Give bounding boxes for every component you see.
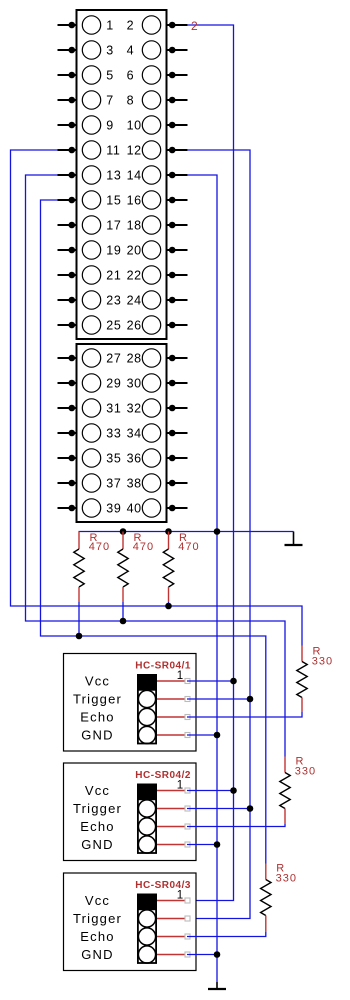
J1B pin 36 (stub, dot, socket, number): [127, 449, 188, 467]
HC-SR04/2 Vcc terminal pad: [185, 788, 190, 793]
svg-text:Echo: Echo: [80, 929, 114, 944]
J1B pin 28 (stub, dot, socket, number): [127, 349, 188, 367]
HC-SR04/1 pin 4 circle: [138, 726, 155, 743]
svg-text:Trigger: Trigger: [73, 801, 122, 816]
svg-text:GND: GND: [81, 728, 114, 743]
HC-SR04/3 Echo terminal pad: [185, 934, 190, 939]
wire HC-SR04/2 Trigger to trigger rail: [187, 808, 250, 810]
svg-text:Vcc: Vcc: [85, 893, 110, 908]
HC-SR04/3 pin header outline: [138, 909, 156, 963]
wire HC-SR04/1 Vcc to 5V rail: [187, 680, 234, 682]
junction R6 / net: [165, 603, 172, 610]
svg-text:28: 28: [127, 351, 142, 365]
HC-SR04/2 Echo lead: [157, 826, 185, 828]
HC-SR04/1 pin 3 circle: [138, 708, 155, 725]
J1A pin 3 (stub, dot, socket, number): [58, 41, 114, 59]
HC-SR04/3 pin 3 circle: [138, 928, 155, 945]
junction HC-SR04/3 GND / GND rail: [214, 951, 221, 958]
J1A pin 13 (stub, dot, socket, number): [58, 166, 122, 184]
svg-text:40: 40: [127, 501, 142, 515]
junction HC-SR04/2 Trigger / trigger rail: [247, 805, 254, 812]
HC-SR04/1 GND terminal pad: [185, 733, 190, 738]
resistor R4 470 ohm (pull-down): [74, 532, 84, 603]
svg-text:37: 37: [106, 476, 121, 490]
svg-text:36: 36: [127, 451, 142, 465]
HC-SR04/3 GND terminal pad: [185, 952, 190, 957]
HC-SR04/1 pin 1 pad (filled square): [137, 674, 157, 689]
svg-text:Vcc: Vcc: [85, 783, 110, 798]
HC-SR04/1 pin 2 circle: [138, 690, 155, 707]
svg-text:16: 16: [127, 193, 142, 207]
junction HC-SR04/1 Vcc / 5V rail: [230, 678, 237, 685]
wire HC-SR04/2 Vcc to 5V rail: [187, 790, 234, 792]
junction GND bus / GND rail: [214, 528, 221, 535]
svg-text:3: 3: [106, 43, 114, 57]
J1A pin 19 (stub, dot, socket, number): [58, 241, 122, 259]
wire HC-SR04/1 GND to GND rail: [187, 734, 217, 736]
HC-SR04/1 pin header outline: [138, 690, 156, 744]
svg-text:Trigger: Trigger: [73, 911, 122, 926]
wire net GPIO22: pin 15 left, down x=40, across y=636, down x=266 to R330/3: [41, 200, 266, 864]
junction GND bus / R470-2: [120, 528, 127, 535]
wire net 2 (5V): pin 2 right, down x=233.5, to Vcc pins of modules: [187, 25, 234, 901]
resistor R6 470 ohm (pull-down): [163, 532, 173, 603]
J1B pin 31 (stub, dot, socket, number): [58, 399, 122, 417]
HC-SR04/3 Trigger terminal pad: [185, 916, 190, 921]
svg-text:2: 2: [127, 18, 135, 32]
svg-text:34: 34: [127, 426, 142, 440]
svg-text:29: 29: [106, 376, 121, 390]
svg-text:470: 470: [178, 541, 199, 553]
svg-text:9: 9: [106, 118, 114, 132]
svg-text:4: 4: [127, 43, 135, 57]
J1A pin 16 (stub, dot, socket, number): [127, 191, 188, 209]
svg-text:15: 15: [106, 193, 121, 207]
J1A pin 23 (stub, dot, socket, number): [58, 291, 122, 309]
J1A pin 25 (stub, dot, socket, number): [58, 316, 122, 334]
svg-text:7: 7: [106, 93, 114, 107]
HC-SR04/2 GND terminal pad: [185, 842, 190, 847]
J1B pin 40 (stub, dot, socket, number): [127, 499, 188, 517]
ground symbol (bottom, below module GND rail): [208, 982, 226, 989]
HC-SR04/2 Vcc lead: [157, 790, 185, 792]
svg-text:32: 32: [127, 401, 142, 415]
svg-text:330: 330: [295, 766, 316, 778]
J1B pin 30 (stub, dot, socket, number): [127, 374, 188, 392]
J1B pin 35 (stub, dot, socket, number): [58, 449, 122, 467]
J1A pin 14 (stub, dot, socket, number): [127, 166, 188, 184]
J1A pin 15 (stub, dot, socket, number): [58, 191, 122, 209]
J1A pin 26 (stub, dot, socket, number): [127, 316, 188, 334]
HC-SR04/1 Echo lead: [157, 716, 185, 718]
svg-text:330: 330: [276, 873, 297, 885]
svg-text:23: 23: [106, 293, 121, 307]
svg-text:14: 14: [127, 168, 142, 182]
svg-text:330: 330: [312, 656, 333, 668]
HC-SR04/2 Echo terminal pad: [185, 824, 190, 829]
J1A pin 24 (stub, dot, socket, number): [127, 291, 188, 309]
HC-SR04/2 Trigger terminal pad: [185, 806, 190, 811]
HC-SR04/2 GND lead: [157, 844, 185, 846]
svg-text:1: 1: [106, 18, 114, 32]
svg-text:38: 38: [127, 476, 142, 490]
junction HC-SR04/2 GND / GND rail: [214, 841, 221, 848]
J1A pin 7 (stub, dot, socket, number): [58, 91, 114, 109]
wire R4 bottom lead down to net: [78, 602, 80, 636]
J1A pin 20 (stub, dot, socket, number): [127, 241, 188, 259]
wire net GPIO18 trigger: pin 12 right, down x=250, to Trigger pins of modules: [187, 150, 250, 919]
HC-SR04/1 Echo terminal pad: [185, 715, 190, 720]
svg-text:27: 27: [106, 351, 121, 365]
junction HC-SR04/2 Vcc / 5V rail: [230, 787, 237, 794]
J1A pin 4 (stub, dot, socket, number): [127, 41, 188, 59]
HC-SR04/2 pin 2 circle: [138, 800, 155, 817]
HC-SR04/3 Trigger lead: [157, 918, 185, 920]
svg-text:20: 20: [127, 243, 142, 257]
wire GND bus y=531 over R470 resistors: [79, 531, 294, 533]
wire R6 bottom lead down to net: [168, 602, 170, 606]
J1B pin 27 (stub, dot, socket, number): [58, 349, 122, 367]
svg-text:470: 470: [133, 541, 154, 553]
junction R4 / net: [76, 633, 83, 640]
J1A pin 10 (stub, dot, socket, number): [127, 116, 188, 134]
J1A pin 17 (stub, dot, socket, number): [58, 216, 122, 234]
wire HC-SR04/1 Trigger to trigger rail: [187, 698, 250, 700]
svg-text:2: 2: [191, 19, 198, 33]
J1A pin 5 (stub, dot, socket, number): [58, 66, 114, 84]
wire HC-SR04/3 GND to GND rail: [187, 954, 217, 956]
HC-SR04/2 pin 4 circle: [138, 836, 155, 853]
J1A pin 6 (stub, dot, socket, number): [127, 66, 188, 84]
HC-SR04/3 GND lead: [157, 954, 185, 956]
svg-text:39: 39: [106, 501, 121, 515]
HC-SR04/3 pin 4 circle: [138, 946, 155, 963]
J1A pin 22 (stub, dot, socket, number): [127, 266, 188, 284]
svg-text:35: 35: [106, 451, 121, 465]
J1A pin 8 (stub, dot, socket, number): [127, 91, 188, 109]
svg-text:26: 26: [127, 318, 142, 332]
svg-text:18: 18: [127, 218, 142, 232]
svg-text:6: 6: [127, 68, 135, 82]
J1A pin 9 (stub, dot, socket, number): [58, 116, 114, 134]
svg-text:Vcc: Vcc: [85, 674, 110, 689]
wire net GPIO27: pin 13 left, down x=25, across y=621, down x=285 to R330/2: [26, 175, 286, 757]
svg-text:GND: GND: [81, 837, 114, 852]
svg-text:1: 1: [177, 780, 183, 792]
module HC-SR04/1 body: [64, 654, 197, 752]
junction HC-SR04/1 GND / GND rail: [214, 732, 221, 739]
svg-text:11: 11: [106, 143, 120, 157]
wire net GPIO17: pin 11 left, down x=10, across y=606, down x=302 to R330/1: [11, 150, 303, 646]
J1B pin 33 (stub, dot, socket, number): [58, 424, 122, 442]
junction HC-SR04/1 Trigger / trigger rail: [247, 696, 254, 703]
J1B pin 39 (stub, dot, socket, number): [58, 499, 122, 517]
junction R5 / net: [120, 618, 127, 625]
HC-SR04/3 Vcc terminal pad: [185, 898, 190, 903]
ground symbol (bus right end): [285, 532, 303, 546]
J1A pin 12 (stub, dot, socket, number): [127, 141, 188, 159]
wire HC-SR04/2 GND to GND rail: [187, 844, 217, 846]
svg-text:25: 25: [106, 318, 121, 332]
J1A pin 2 (stub, dot, socket, number): [127, 16, 188, 34]
J1A pin 11 (stub, dot, socket, number): [58, 141, 121, 159]
resistor R3 330 ohm (series echo): [261, 864, 271, 933]
HC-SR04/2 pin header outline: [138, 799, 156, 853]
resistor R5 470 ohm (pull-down): [118, 532, 128, 603]
svg-text:1: 1: [177, 670, 183, 682]
HC-SR04/3 Vcc lead: [157, 900, 185, 902]
svg-text:470: 470: [89, 541, 110, 553]
J1A pin 1 (stub, dot, socket, number): [58, 16, 114, 34]
HC-SR04/1 Trigger terminal pad: [185, 697, 190, 702]
J1B pin 29 (stub, dot, socket, number): [58, 374, 122, 392]
svg-text:30: 30: [127, 376, 142, 390]
svg-text:Echo: Echo: [80, 819, 114, 834]
svg-text:22: 22: [127, 268, 142, 282]
svg-text:Trigger: Trigger: [73, 692, 122, 707]
wire HC-SR04/3 Echo to R3 bottom: [187, 932, 266, 937]
svg-text:Echo: Echo: [80, 710, 114, 725]
J1B pin 37 (stub, dot, socket, number): [58, 474, 122, 492]
connector J1A body: [77, 10, 167, 339]
J1A pin 21 (stub, dot, socket, number): [58, 266, 122, 284]
HC-SR04/1 Vcc terminal pad: [185, 679, 190, 684]
module HC-SR04/2 body: [64, 763, 197, 861]
junction GND bus / R470-3: [165, 528, 172, 535]
wire net GND: pin 14 right, down x=217 to ground: [187, 175, 217, 982]
connector J1B body: [77, 344, 167, 522]
HC-SR04/3 pin 2 circle: [138, 910, 155, 927]
svg-text:19: 19: [106, 243, 121, 257]
J1B pin 38 (stub, dot, socket, number): [127, 474, 188, 492]
svg-text:33: 33: [106, 426, 121, 440]
module HC-SR04/3 body: [64, 873, 197, 971]
svg-text:GND: GND: [81, 947, 114, 962]
HC-SR04/1 Trigger lead: [157, 698, 185, 700]
svg-text:1: 1: [177, 890, 183, 902]
svg-text:24: 24: [127, 293, 142, 307]
svg-text:5: 5: [106, 68, 114, 82]
svg-text:8: 8: [127, 93, 135, 107]
resistor R2 330 ohm (series echo): [280, 757, 290, 825]
svg-text:21: 21: [106, 268, 121, 282]
svg-text:31: 31: [106, 401, 121, 415]
J1B pin 34 (stub, dot, socket, number): [127, 424, 188, 442]
HC-SR04/2 pin 3 circle: [138, 818, 155, 835]
svg-text:10: 10: [127, 118, 142, 132]
HC-SR04/1 Vcc lead: [157, 680, 185, 682]
svg-text:12: 12: [127, 143, 142, 157]
resistor R1 330 ohm (series echo): [297, 646, 307, 713]
wire R5 bottom lead down to net: [122, 602, 124, 621]
HC-SR04/2 pin 1 pad (filled square): [137, 784, 157, 799]
svg-text:13: 13: [106, 168, 121, 182]
svg-text:17: 17: [106, 218, 121, 232]
wire HC-SR04/1 Echo to R1 bottom: [187, 712, 302, 717]
wire HC-SR04/2 Echo to R2 bottom: [187, 824, 285, 827]
J1A pin 18 (stub, dot, socket, number): [127, 216, 188, 234]
HC-SR04/1 GND lead: [157, 734, 185, 736]
HC-SR04/3 pin 1 pad (filled square): [137, 894, 157, 909]
HC-SR04/3 Echo lead: [157, 936, 185, 938]
J1B pin 32 (stub, dot, socket, number): [127, 399, 188, 417]
HC-SR04/2 Trigger lead: [157, 808, 185, 810]
